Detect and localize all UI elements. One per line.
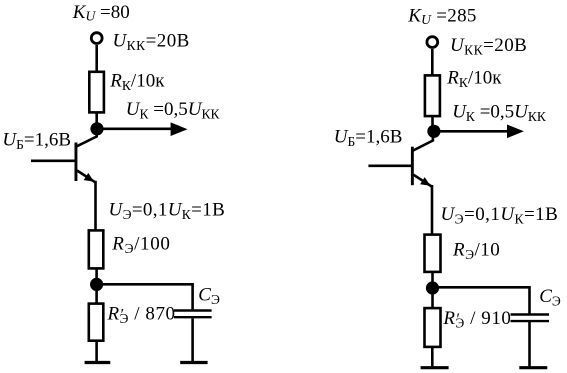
ground (capacitor branch) right [519,366,547,369]
svg-text:RК/10к: RК/10к [446,68,502,91]
svg-text:UК =0,5UКК: UК =0,5UКК [452,101,547,124]
svg-text:UЭ=0,1UК=1В: UЭ=0,1UК=1В [441,204,559,227]
svg-text:UКК=20В: UКК=20В [113,30,190,53]
wire RK to collector node [95,112,98,129]
wire supply to RK right [431,49,434,75]
svg-text:R′Э / 910: R′Э / 910 [442,308,511,331]
label UB=1,6B [2,129,71,152]
svg-text:RК/10к: RК/10к [109,70,165,93]
svg-text:UБ=1,6В: UБ=1,6В [2,129,71,152]
node emitter junction [90,278,103,291]
label R'Э/870 [107,303,176,326]
label CЭ right [539,286,561,309]
label RK/10k right [446,68,502,91]
label CЭ [198,284,220,307]
svg-text:UК =0,5UКК: UК =0,5UКК [126,99,221,122]
supply terminal circle (UKK) [91,33,102,44]
svg-text:KU =80: KU =80 [72,2,130,24]
capacitor CЭ right [511,315,550,322]
wire capacitor to ground [191,318,194,362]
label RЭ/10 right [452,239,500,261]
wire supply to RK [95,45,98,72]
wire RK to collector node right [431,116,434,132]
ground (capacitor branch) [180,361,207,364]
label UK=0,5UKK [126,99,221,122]
svg-text:CЭ: CЭ [539,286,561,309]
ground (left branch) right [421,366,449,369]
wire emitter down right [431,185,434,234]
svg-text:KU =285: KU =285 [407,6,477,28]
svg-text:UКК=20В: UКК=20В [450,35,527,58]
svg-text:RЭ/10: RЭ/10 [452,239,500,261]
ground (left branch) [85,361,111,364]
label R'Э/910 right [442,308,511,331]
label KU=285 [407,6,477,28]
node collector junction [90,122,103,135]
wire capacitor to ground right [528,322,531,367]
wire RЭ to emitter node [95,268,98,285]
label KU=80 [72,2,130,24]
wire output with arrow [97,122,188,136]
capacitor CЭ [174,311,212,318]
svg-text:UЭ=0,1UК=1В: UЭ=0,1UК=1В [109,200,226,223]
svg-text:R′Э / 870: R′Э / 870 [107,303,176,326]
supply terminal circle (UKK) right [427,37,438,48]
label UЭ=0,1UK=1B right [441,204,559,227]
resistor RЭ right [425,235,441,272]
label UKK=20B right [450,35,527,58]
wire output with arrow right [434,125,524,139]
label UЭ=0,1UK=1B [109,200,226,223]
transistor VT2 [411,134,433,187]
wire node to R'Э [95,284,98,303]
label UKK=20B [113,30,190,53]
wire base [31,160,76,163]
node emitter junction right [426,281,439,294]
wire RЭ to emitter node right [431,271,434,289]
wire R'Э to ground right [431,346,434,367]
wire base right [368,165,412,168]
node collector junction right [427,125,440,138]
resistor R'Э [89,304,104,341]
wire node to R'Э right [431,288,434,308]
transistor VT1 [75,130,97,182]
wire emitter down [94,181,97,230]
svg-text:UБ=1,6В: UБ=1,6В [334,127,403,150]
resistor RЭ [89,230,104,268]
resistor RK [89,72,104,113]
svg-text:CЭ: CЭ [198,284,220,307]
wire node to capacitor right [433,287,530,313]
svg-text:RЭ/100: RЭ/100 [111,233,170,256]
resistor RK right [425,75,440,116]
wire R'Э to ground [95,341,98,362]
label UB=1,6B right [334,127,403,150]
resistor R'Э right [425,308,441,347]
label UK=0,5UKK right [452,101,547,124]
label RK/10k [109,70,165,93]
wire node to capacitor [97,284,193,309]
label RЭ/100 [111,233,170,256]
